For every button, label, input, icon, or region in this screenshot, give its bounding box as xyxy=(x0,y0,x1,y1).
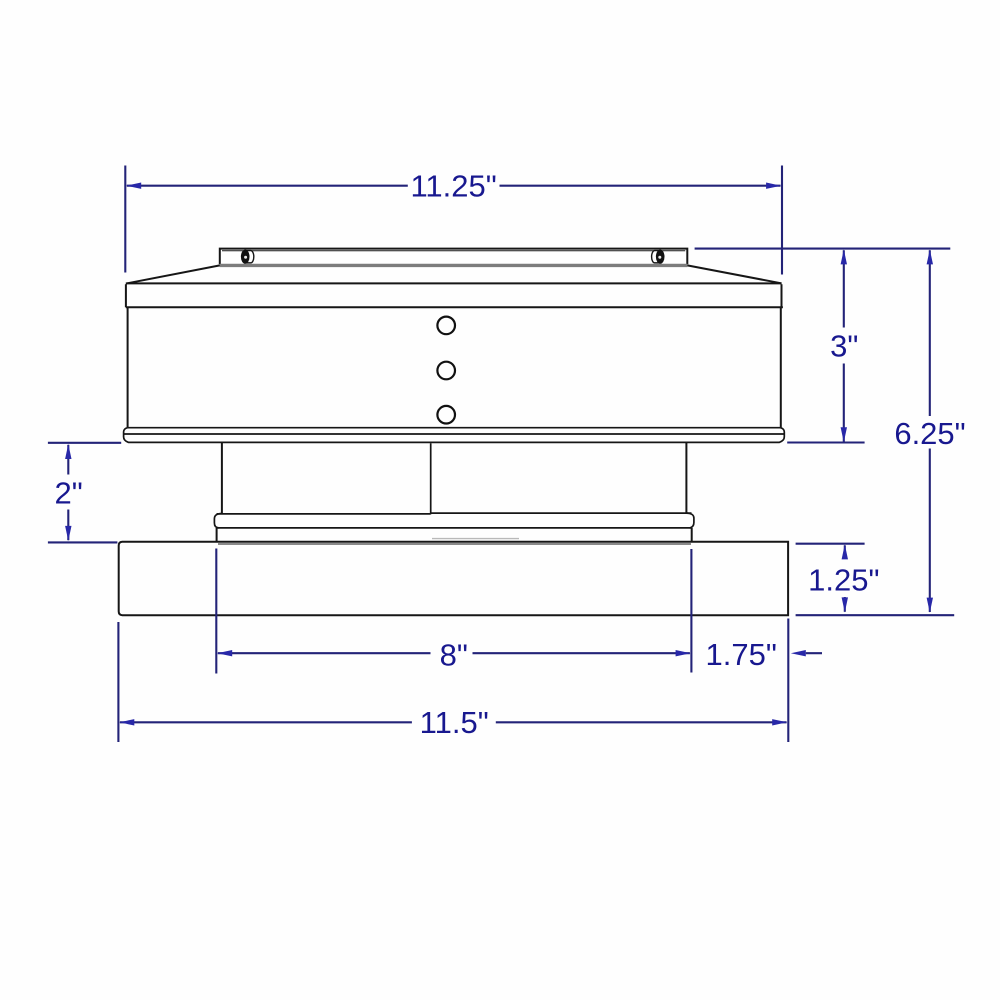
dimension 8" xyxy=(216,549,691,674)
louver hole bottom xyxy=(437,406,455,424)
body left wall xyxy=(127,307,129,428)
svg-text:11.5": 11.5" xyxy=(420,705,489,740)
cap cone right slope xyxy=(687,265,781,283)
collar skirt right edge xyxy=(691,528,693,542)
inner pipe line above base xyxy=(432,538,519,540)
svg-text:2": 2" xyxy=(54,475,82,510)
body right wall xyxy=(780,307,782,428)
right screw xyxy=(652,250,665,264)
base plate xyxy=(119,542,788,615)
dimension 2" xyxy=(48,443,121,543)
svg-text:11.25": 11.25" xyxy=(410,169,496,204)
louver hole top xyxy=(437,317,455,335)
cap top plate xyxy=(220,249,688,266)
pipe seam xyxy=(430,443,432,514)
dimension 11.25" xyxy=(125,166,782,275)
svg-text:1.75": 1.75" xyxy=(706,637,777,672)
louver hole middle xyxy=(437,362,455,380)
pipe bead xyxy=(214,513,694,528)
dimension 6.25" xyxy=(796,250,955,615)
svg-text:8": 8" xyxy=(440,637,468,672)
top reference line xyxy=(695,248,951,250)
dimension 11.5" xyxy=(118,619,788,743)
dimension 1.75" xyxy=(791,650,806,656)
left screw xyxy=(241,250,254,264)
pipe collar left edge xyxy=(221,443,223,514)
svg-text:3": 3" xyxy=(830,328,858,363)
svg-text:6.25": 6.25" xyxy=(894,416,965,451)
pipe collar right edge xyxy=(685,443,687,513)
cap cone left slope xyxy=(127,265,220,283)
cap brim band xyxy=(126,283,783,307)
svg-text:1.25": 1.25" xyxy=(808,562,879,597)
collar skirt left edge xyxy=(216,528,218,542)
dimension 1.25" xyxy=(796,544,865,612)
body bottom flange xyxy=(124,428,785,443)
dimension 3" xyxy=(787,250,864,442)
